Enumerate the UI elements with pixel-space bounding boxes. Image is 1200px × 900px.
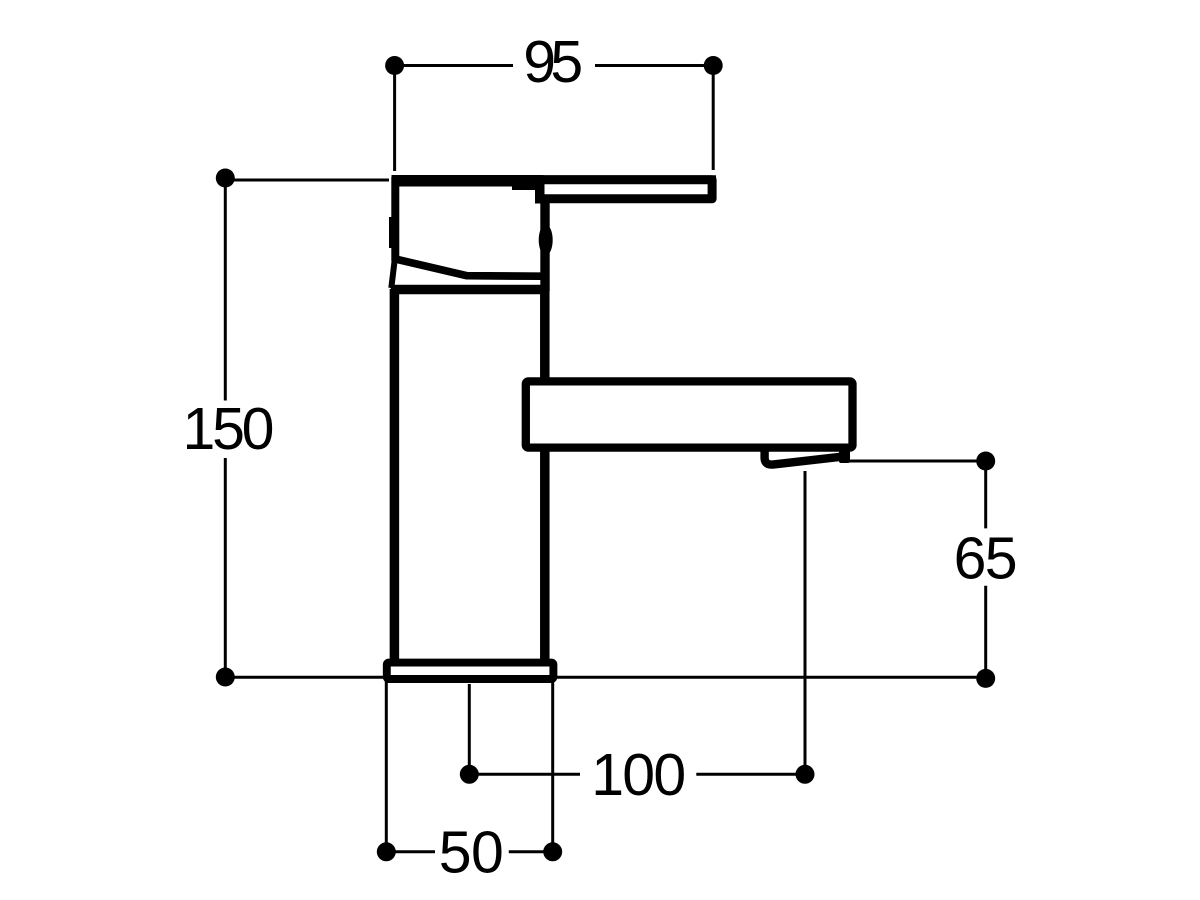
faucet handle body left edge	[389, 177, 395, 288]
handle pivot blob	[539, 225, 553, 256]
dim 50 left extension line	[385, 681, 388, 852]
svg-text:65: 65	[954, 526, 1018, 592]
collar band	[391, 285, 549, 295]
dim 50 line left segment	[386, 850, 435, 853]
dim 50 left dot	[377, 842, 396, 861]
dim 100 left dot	[460, 765, 479, 784]
shared bottom extension line	[225, 676, 985, 679]
dim 100 right dot	[796, 765, 815, 784]
dim 50 line right segment	[509, 850, 553, 853]
dim 95 line right segment	[595, 64, 713, 67]
dim 65 top extension line	[849, 460, 986, 463]
dim 65 line upper segment	[984, 461, 987, 528]
dim 95 right dot	[704, 56, 723, 75]
spout	[526, 381, 853, 447]
dim 65 top dot	[976, 452, 995, 471]
dim 95 left dot	[385, 56, 404, 75]
faucet handle body right edge	[539, 181, 545, 291]
dim 95 left extension line	[393, 66, 396, 172]
dim 150 line lower segment	[224, 458, 227, 677]
dim 95 line left segment	[395, 64, 513, 67]
dim 65 bottom dot	[976, 669, 995, 688]
svg-text:100: 100	[591, 742, 686, 808]
body column left edge	[390, 289, 400, 661]
svg-text:50: 50	[439, 820, 504, 886]
dim 95 right extension line	[712, 66, 715, 171]
aerator nozzle	[765, 447, 850, 465]
dim 65 line lower segment	[984, 586, 987, 679]
dim 50 right dot	[543, 842, 562, 861]
dim 150 bottom dot	[216, 668, 235, 687]
body column right edge	[540, 289, 550, 661]
base plate	[387, 663, 554, 679]
dim 100 line right segment	[696, 773, 805, 776]
dim 150 line upper segment	[224, 178, 227, 401]
dim 150 top extension line	[225, 179, 389, 182]
dim 100 line left segment	[469, 773, 580, 776]
handle bottom slanted edge	[394, 259, 542, 276]
svg-text:95: 95	[523, 29, 583, 95]
dim 50 right extension line	[551, 681, 554, 852]
dim 100 left extension line	[468, 684, 471, 774]
dim 150 top dot	[216, 169, 235, 188]
handle lever bar	[540, 180, 712, 199]
faucet top cap bar	[392, 175, 539, 187]
svg-text:150: 150	[183, 396, 275, 462]
dim 100 right extension line	[804, 471, 807, 774]
